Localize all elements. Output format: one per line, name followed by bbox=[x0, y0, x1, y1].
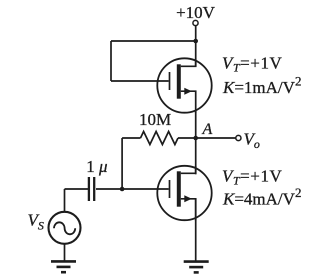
svg-text:10M: 10M bbox=[139, 110, 171, 129]
svg-text:K=4mA/V2: K=4mA/V2 bbox=[222, 185, 301, 209]
wire node A left bbox=[122, 137, 140, 139]
Q1 drain lead bbox=[181, 59, 196, 67]
Q2 drain lead bbox=[181, 166, 196, 173]
capacitor C plate right bbox=[93, 177, 95, 201]
wire VS to ground bbox=[64, 244, 66, 261]
wire feedback left vertical bbox=[110, 41, 112, 81]
source VS sine bbox=[54, 222, 75, 234]
wire down to source Vs bbox=[64, 189, 66, 212]
Q1 channel bar bbox=[177, 64, 181, 98]
Q1 source arrow bbox=[184, 88, 192, 95]
wire gate node to Q2 gate bbox=[96, 188, 169, 190]
node A dot bbox=[193, 136, 198, 141]
transistor Q1 circle bbox=[157, 58, 211, 112]
wire feedback top bbox=[111, 40, 196, 42]
Q1 source lead bbox=[181, 91, 196, 113]
wire source to capacitor bbox=[65, 188, 89, 190]
capacitor C plate left bbox=[88, 177, 90, 201]
wire Q1 source to node A bbox=[195, 110, 197, 138]
wire terminal to drain node bbox=[195, 26, 197, 67]
Q2 gate plate bbox=[169, 180, 171, 198]
svg-text:K=1mA/V2: K=1mA/V2 bbox=[222, 74, 301, 98]
output terminal bbox=[236, 135, 241, 140]
wire node A to output bbox=[196, 137, 236, 139]
ground left bbox=[51, 261, 76, 272]
source VS circle bbox=[49, 212, 81, 244]
junction dot drain-gate tie bbox=[193, 39, 198, 44]
svg-text:A: A bbox=[202, 121, 213, 138]
svg-text:VT=+1V: VT=+1V bbox=[222, 54, 282, 75]
wire resistor to node A bbox=[178, 137, 196, 139]
svg-text:1 μ: 1 μ bbox=[86, 157, 107, 176]
wire feedback to gate Q1 bbox=[111, 80, 169, 82]
Q2 source lead bbox=[181, 199, 196, 221]
wire node A to Q2 drain bbox=[195, 138, 197, 174]
Q2 source arrow bbox=[184, 195, 192, 202]
junction dot gate node bbox=[120, 187, 125, 192]
wire Q2 source to ground bbox=[195, 199, 197, 261]
svg-text:+10V: +10V bbox=[176, 3, 216, 22]
power terminal bbox=[193, 20, 198, 25]
Q2 channel bar bbox=[177, 171, 181, 206]
resistor 10M zigzag bbox=[141, 132, 179, 145]
transistor Q2 circle bbox=[157, 166, 211, 220]
ground right bbox=[184, 262, 209, 273]
Q1 gate plate bbox=[169, 72, 171, 90]
svg-text:VT=+1V: VT=+1V bbox=[222, 167, 282, 188]
wire resistor branch down bbox=[121, 138, 123, 189]
